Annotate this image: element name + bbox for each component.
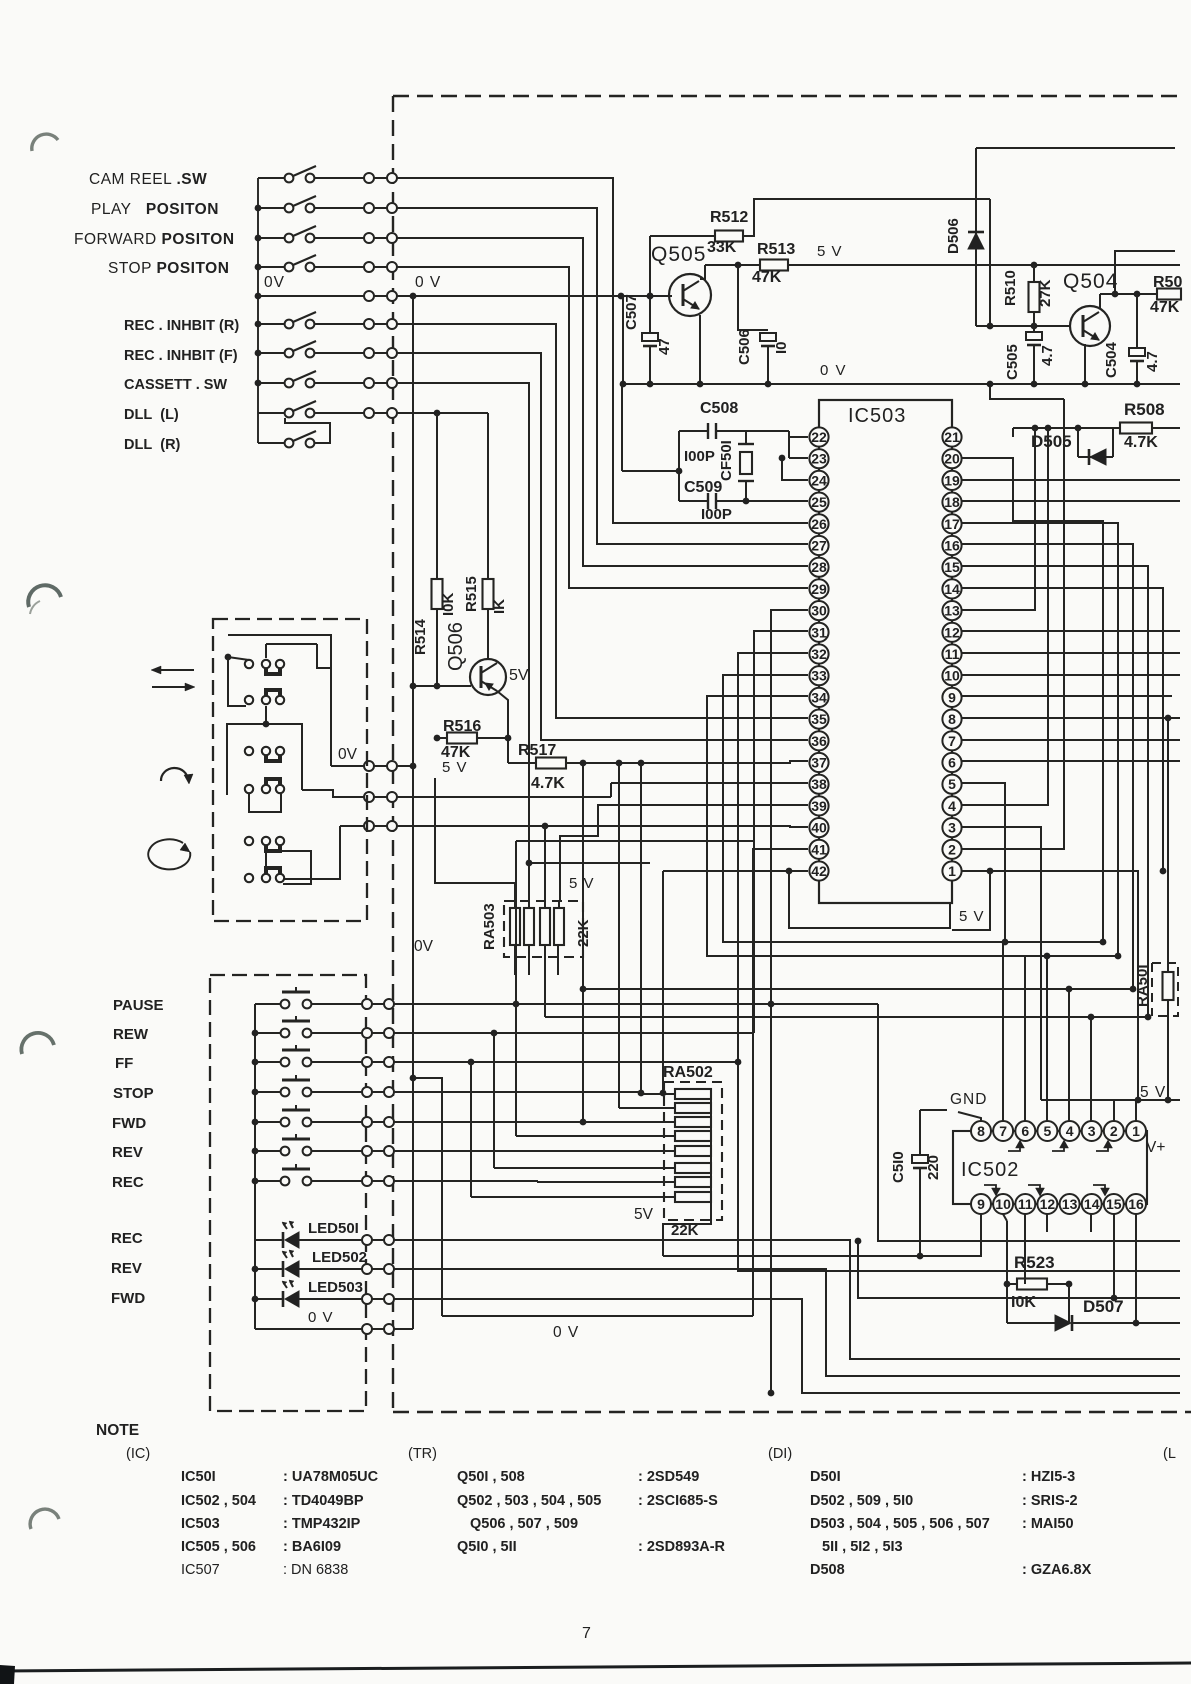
svg-text:5V: 5V [509, 667, 529, 684]
wire row y956 bundle [707, 955, 1118, 957]
svg-text:47: 47 [656, 338, 673, 355]
svg-text:Q504: Q504 [1063, 270, 1118, 293]
wire pin20 staircase [961, 458, 1103, 942]
svg-text:220: 220 [925, 1155, 942, 1180]
svg-text:I0K: I0K [1011, 1294, 1036, 1311]
wire pin16 to vertical [961, 544, 1133, 989]
svg-text:D505: D505 [1031, 432, 1072, 451]
wire row CASSETT SW down to RA503 col2 [397, 383, 529, 901]
svg-text:29: 29 [811, 581, 827, 597]
IC503 pin 1 [942, 861, 961, 880]
wire pin32 to FF row [738, 653, 1180, 1271]
svg-text:: DN 6838: : DN 6838 [283, 1562, 348, 1578]
svg-text:15: 15 [1106, 1196, 1122, 1212]
svg-text:: 2SCI685-S: : 2SCI685-S [638, 1493, 718, 1509]
wire pin21 up to R508 [1012, 428, 1014, 437]
svg-text:FWD: FWD [112, 1115, 146, 1132]
mode switch enclosure dashed box [213, 619, 367, 921]
RA503 resistor 1 [510, 908, 520, 945]
resistor R510 [1033, 265, 1035, 282]
resistor R515 [487, 413, 489, 579]
svg-text:DLL (L): DLL (L) [124, 407, 179, 423]
capacitor C506 [735, 262, 742, 269]
wire feed into CF501 loop [621, 384, 623, 471]
wire 0V vertical drop x=623 [622, 296, 624, 384]
IC503 pin 30 [809, 601, 828, 620]
svg-text:C507: C507 [623, 294, 640, 330]
wire IC502 pin1 to 5V [1135, 1100, 1137, 1121]
wire 0V long vertical [412, 296, 414, 1329]
capacitor C504 [1136, 294, 1138, 348]
IC503 pin 18 [942, 493, 961, 512]
IC503 pin 20 [942, 449, 961, 468]
svg-text:IC50I: IC50I [181, 1469, 216, 1485]
svg-text:5 V: 5 V [959, 908, 985, 925]
svg-text:I00P: I00P [701, 506, 732, 523]
svg-text:10: 10 [944, 668, 960, 684]
mode switch contact group y=878 [245, 874, 253, 882]
IC503 pin 9 [942, 688, 961, 707]
resistor R513 [705, 264, 760, 266]
svg-text:23: 23 [811, 451, 827, 467]
svg-text:15: 15 [944, 559, 960, 575]
IC502 inverter arrows bottom [984, 1185, 996, 1192]
wire REC row to RA502 r7 [394, 1180, 538, 1182]
IC503 pin 7 [942, 731, 961, 750]
RA502 left leads [653, 1093, 675, 1095]
svg-text:C505: C505 [1004, 344, 1021, 380]
wire row DLL L to R514/R515 [397, 412, 488, 414]
wire IC502 pin10 down [1003, 1214, 1007, 1221]
wire REW row to pin31 vertical [394, 1032, 754, 1034]
svg-text:13: 13 [944, 603, 960, 619]
svg-text:D506: D506 [945, 218, 962, 254]
svg-text:IC502 , 504: IC502 , 504 [181, 1493, 256, 1509]
svg-text:IC503: IC503 [181, 1516, 220, 1532]
IC503 pin 31 [809, 623, 828, 642]
wire pin9 long right [961, 695, 1172, 697]
svg-text:V+: V+ [1146, 1139, 1165, 1156]
wire top-right 5V rail [976, 147, 1175, 149]
wire STOP row to RA502 r1 [394, 1091, 641, 1093]
svg-text:0V: 0V [338, 746, 358, 763]
capacitor C508 [679, 430, 708, 432]
resistor R50x [1100, 293, 1157, 295]
svg-text:R513: R513 [757, 241, 795, 258]
svg-text:11: 11 [1018, 1196, 1033, 1212]
RA501 resistor [1167, 718, 1169, 972]
wire Q505 emitter down to 0V row [699, 315, 701, 384]
wire row mode3 to pin40 [340, 825, 364, 827]
svg-text:5 V: 5 V [817, 243, 843, 260]
IC503 pin 19 [942, 471, 961, 490]
wire FWD row to RA502 r3 [394, 1121, 653, 1123]
mode switch contact group y=664 [245, 660, 253, 668]
svg-text:37: 37 [811, 755, 827, 771]
svg-text:24: 24 [811, 472, 827, 488]
buttons left bus [254, 1004, 256, 1329]
wire Q504 emitter to 0V [1084, 344, 1086, 384]
IC502 pin 14 [1082, 1194, 1102, 1214]
wire v1069 to IC502 pin4 [1068, 989, 1070, 1121]
svg-text:3: 3 [1088, 1123, 1096, 1139]
svg-text:FWD: FWD [111, 1290, 145, 1307]
svg-text:D50I: D50I [810, 1469, 841, 1485]
wire pin41 long vertical [753, 849, 808, 1316]
dashed border left vertical [392, 96, 394, 1412]
svg-text:1: 1 [1132, 1123, 1140, 1139]
svg-text:4.7: 4.7 [1144, 351, 1161, 372]
wire row y989 bundle [583, 988, 1133, 990]
svg-text:0 V: 0 V [415, 274, 441, 291]
wire pin15 to vertical [961, 566, 1148, 1017]
IC503 pin 34 [809, 688, 828, 707]
svg-text:LED502: LED502 [312, 1249, 367, 1266]
wire pin1 to 5V net [961, 870, 990, 872]
IC IC502 body [953, 1131, 1147, 1204]
wire row REC INHBIT F to pin36 [397, 353, 808, 740]
wire row 1298 from v858 [858, 1241, 1180, 1298]
IC503 pin 24 [809, 471, 828, 490]
svg-text:R515: R515 [463, 576, 480, 612]
svg-text:36: 36 [811, 733, 827, 749]
RA502 resistor 3 [675, 1117, 711, 1127]
svg-text:FF: FF [115, 1055, 133, 1072]
svg-text:REW: REW [113, 1026, 149, 1043]
IC503 pin 8 [942, 710, 961, 729]
svg-text:6: 6 [948, 755, 956, 771]
svg-text:18: 18 [944, 494, 960, 510]
svg-text:6: 6 [1021, 1123, 1029, 1139]
svg-text:REC . INHBIT (F): REC . INHBIT (F) [124, 348, 238, 364]
RA502 resistor 6 [675, 1163, 711, 1173]
wire R512 to 5V corner [743, 199, 990, 236]
switch contact row y=413 [258, 412, 285, 414]
resistor array RA502 dashed box [664, 1082, 722, 1220]
svg-text:8: 8 [977, 1123, 985, 1139]
svg-text:DLL (R): DLL (R) [124, 437, 181, 453]
wire v471 FF to RA502 r8 [470, 1062, 472, 1197]
wire FF row [394, 1061, 738, 1063]
resistor array RA503 dashed box [504, 901, 583, 957]
wire Q504 base row [976, 325, 1071, 327]
svg-text:I00P: I00P [684, 448, 715, 465]
IC503 pin 10 [942, 666, 961, 685]
wire 0V row to Q505 base [258, 295, 672, 297]
svg-text:17: 17 [944, 516, 960, 532]
LED LED503 [255, 1298, 283, 1300]
wire row mode2 [364, 792, 374, 802]
svg-text:C504: C504 [1103, 341, 1120, 378]
RA503 resistor 4 [554, 908, 564, 945]
wire Q504 collector up [1099, 294, 1101, 309]
dashed border top [393, 95, 1180, 97]
svg-text:PAUSE: PAUSE [113, 997, 164, 1014]
svg-text:32: 32 [811, 646, 827, 662]
svg-text:26: 26 [811, 516, 827, 532]
svg-text:NOTE: NOTE [96, 1422, 139, 1439]
svg-text:C508: C508 [700, 400, 738, 417]
mode switch contact group y=789 [245, 785, 253, 793]
wire pin13 from R508 node [961, 428, 1035, 610]
svg-text:22K: 22K [575, 919, 592, 947]
svg-text:20: 20 [944, 451, 960, 467]
punch hole lower-middle-left [21, 1033, 54, 1054]
IC503 pin 36 [809, 731, 828, 750]
IC503 pin 6 [942, 753, 961, 772]
svg-text:RA50I: RA50I [1134, 964, 1151, 1007]
pushbutton FWD [255, 1121, 281, 1123]
svg-text:IC502: IC502 [961, 1159, 1019, 1181]
wire Q505 collector to R513 node [700, 265, 705, 279]
resistor R512 [715, 231, 743, 242]
resistor R508 [1013, 427, 1120, 429]
IC503 pin 38 [809, 775, 828, 794]
wire LED501 row right [394, 1240, 1180, 1359]
svg-text:: 2SD549: : 2SD549 [638, 1469, 699, 1485]
IC503 pin 13 [942, 601, 961, 620]
mode arrow u-turn [161, 768, 188, 781]
switch contact row y=208 [258, 207, 285, 209]
svg-text:Q506: Q506 [445, 622, 467, 671]
IC502 pin 5 [1037, 1121, 1057, 1141]
wire IC502 pin12 stub [1046, 1214, 1048, 1232]
svg-text:GND: GND [950, 1091, 987, 1108]
IC502 pin 12 [1037, 1194, 1057, 1214]
svg-text:C509: C509 [684, 479, 722, 496]
svg-text:13: 13 [1062, 1196, 1078, 1212]
switch contact row y=324 [258, 323, 285, 325]
wire jog x=990 [989, 199, 991, 326]
svg-text:R50: R50 [1153, 274, 1182, 291]
svg-text:38: 38 [811, 776, 827, 792]
wire v611 to pin38 row [610, 783, 612, 797]
svg-text:REC . INHBIT (R): REC . INHBIT (R) [124, 318, 239, 334]
mode switch internal wires [225, 654, 232, 661]
wire pin42 row to left [663, 870, 789, 872]
svg-text:42: 42 [811, 863, 827, 879]
svg-text:FORWARD POSITON: FORWARD POSITON [74, 231, 235, 248]
svg-text:47K: 47K [752, 269, 782, 286]
diode D505 [1077, 428, 1079, 457]
IC503 pin 14 [942, 579, 961, 598]
svg-text:PLAY POSITON: PLAY POSITON [91, 201, 219, 218]
svg-text:9: 9 [977, 1196, 985, 1212]
svg-text:1: 1 [948, 863, 956, 879]
svg-text:16: 16 [944, 538, 960, 554]
switch contact row y=353 [258, 352, 285, 354]
pushbutton REV [255, 1150, 281, 1152]
svg-text:: SRIS-2: : SRIS-2 [1022, 1493, 1078, 1509]
svg-text:5: 5 [948, 776, 956, 792]
wire row STOP to pin29 cascade [397, 267, 808, 588]
wire row 0V from mode switch [331, 765, 364, 767]
wire pin37 down to RA502 row1 [640, 763, 642, 1093]
svg-text:REV: REV [112, 1144, 143, 1161]
wire pin34 to IC502 pin6 [707, 696, 1025, 1121]
IC503 pin 42 [809, 861, 828, 880]
wire R517 row to IC503 pin37 [566, 761, 808, 763]
wire stub row 1078 and v442 [410, 1075, 417, 1082]
svg-text:Q505: Q505 [651, 243, 706, 266]
svg-text:D502 , 509 , 5I0: D502 , 509 , 5I0 [810, 1493, 913, 1509]
buttons enclosure dashed box [210, 975, 366, 1411]
diode D507 [1007, 1322, 1055, 1324]
IC503 pin 22 [809, 427, 828, 446]
wire PAUSE row to pin30 vertical [394, 1003, 878, 1005]
svg-text:Q5I0 , 5II: Q5I0 , 5II [457, 1539, 517, 1555]
IC503 pin 29 [809, 579, 828, 598]
wire row 841 [516, 840, 753, 842]
svg-text:2: 2 [1110, 1123, 1118, 1139]
svg-text:: MAI50: : MAI50 [1022, 1516, 1074, 1532]
mode switch inner frame [227, 724, 302, 795]
mode arrow double horizontal [155, 669, 194, 671]
svg-text:IK: IK [491, 599, 508, 614]
svg-text:11: 11 [945, 646, 960, 662]
switch contact row y=178 [258, 177, 285, 179]
svg-text:19: 19 [944, 472, 960, 488]
svg-text:CAM REEL .SW: CAM REEL .SW [89, 171, 207, 188]
wire IC502 pin16 down [1135, 1214, 1137, 1323]
wire row y1017 bundle [545, 1016, 1148, 1018]
capacitor C509 [679, 500, 708, 502]
wire R523 right node down [1068, 1213, 1070, 1215]
wire pin10 long right [961, 674, 1180, 676]
svg-text:D507: D507 [1083, 1297, 1124, 1316]
svg-text:14: 14 [1084, 1196, 1100, 1212]
pushbutton REC [255, 1180, 281, 1182]
svg-text:27: 27 [811, 538, 827, 554]
svg-text:RA503: RA503 [481, 903, 498, 950]
svg-text:R508: R508 [1124, 400, 1165, 419]
IC502 pin 1 [1126, 1121, 1146, 1141]
svg-text:C5I0: C5I0 [890, 1151, 907, 1183]
wire pin11 long right [961, 652, 1180, 654]
punch hole upper-middle-left [28, 585, 61, 607]
svg-text:(L: (L [1163, 1446, 1176, 1462]
svg-text:4.7: 4.7 [1039, 345, 1056, 366]
svg-text:REC: REC [112, 1174, 144, 1191]
wire v878 down to row 1241 [878, 1004, 1180, 1241]
wire pin33 to IC502 pin7 [723, 675, 1003, 1121]
wire row 1316 [442, 1315, 753, 1317]
svg-text:27K: 27K [1037, 279, 1054, 307]
IC503 pin 37 [809, 753, 828, 772]
svg-text:: UA78M05UC: : UA78M05UC [283, 1469, 379, 1485]
resistor R516 [437, 737, 447, 739]
svg-text:R512: R512 [710, 209, 748, 226]
svg-text:3: 3 [948, 820, 956, 836]
svg-text:7: 7 [999, 1123, 1007, 1139]
svg-text:: BA6I09: : BA6I09 [283, 1539, 341, 1555]
RA502 resistor 7 [675, 1177, 711, 1187]
RA502 resistor 5 [675, 1146, 711, 1156]
wire v516 PAUSE to RA502 r4 [515, 841, 517, 1136]
wire row FORWARD to pin28 cascade [397, 238, 808, 566]
IC502 pin 10 [993, 1194, 1013, 1214]
IC502 pin 3 [1082, 1121, 1102, 1141]
svg-text:Q502 , 503 , 504 , 505: Q502 , 503 , 504 , 505 [457, 1493, 601, 1509]
diode D506 [975, 148, 977, 326]
switch contact row DLL R [258, 442, 285, 444]
wire long vertical x583 [582, 763, 584, 1122]
svg-text:4.7K: 4.7K [531, 775, 565, 792]
IC503 pin 16 [942, 536, 961, 555]
IC503 pin 33 [809, 666, 828, 685]
wire 0V row under Q505 [623, 383, 1180, 385]
IC503 pin 40 [809, 818, 828, 837]
punch hole bottom-left [30, 1509, 59, 1529]
capacitor C507 [649, 296, 651, 333]
IC502 pin 8 [971, 1121, 991, 1141]
LED bus left [254, 1240, 256, 1329]
wire LED502 row right [394, 1269, 1180, 1376]
LED LED502 [255, 1268, 283, 1270]
svg-text:40: 40 [811, 820, 827, 836]
svg-text:D503 , 504 , 505 , 506 , 507: D503 , 504 , 505 , 506 , 507 [810, 1516, 990, 1532]
svg-text:5V: 5V [634, 1206, 654, 1223]
wire row 863 [529, 862, 650, 864]
wire pin12 long right [961, 630, 1180, 632]
wire 5V row above IC502 [1041, 1099, 1180, 1101]
IC502 inverter arrows top [1008, 1144, 1020, 1151]
switch contact row y=383 [258, 382, 285, 384]
IC503 pin 15 [942, 558, 961, 577]
IC IC503 body [819, 400, 952, 903]
svg-text:4: 4 [948, 798, 956, 814]
svg-text:35: 35 [811, 711, 827, 727]
wire pin18 long right [961, 500, 1180, 502]
svg-text:R516: R516 [443, 718, 481, 735]
svg-text:14: 14 [944, 581, 960, 597]
svg-text:33: 33 [811, 668, 827, 684]
RA502 resistor 2 [675, 1103, 711, 1113]
wire pin7 long right [961, 739, 1180, 741]
svg-text:Q50I , 508: Q50I , 508 [457, 1469, 525, 1485]
wire LED503 row right [394, 1299, 1180, 1393]
IC502 pin 7 [993, 1121, 1013, 1141]
transistor Q505 [669, 274, 711, 316]
svg-text:I0: I0 [773, 341, 790, 354]
svg-text:C506: C506 [736, 329, 753, 365]
wire IC502 pin15 down [1113, 1214, 1115, 1298]
svg-text:R523: R523 [1014, 1253, 1055, 1272]
mode switch contact group y=841 [245, 837, 253, 845]
wire pin17 to vertical [961, 523, 1118, 956]
ceramic filter CF501 [745, 431, 747, 444]
IC502 pin 9 [971, 1194, 991, 1214]
wire IC502 pin9 down [980, 1214, 982, 1256]
wire pin39 to RA503 col4 [560, 805, 808, 901]
wire R512 feed vertical x650 [649, 236, 651, 296]
svg-text:STOP POSITON: STOP POSITON [108, 260, 229, 277]
left bus wire of mode switches [257, 178, 259, 443]
svg-text:CF50I: CF50I [718, 440, 735, 481]
resistor array RA501 dashed box [1152, 963, 1178, 1016]
svg-text:LED50I: LED50I [308, 1220, 359, 1237]
svg-text:9: 9 [948, 689, 956, 705]
svg-text:33K: 33K [707, 239, 737, 256]
svg-text:5II , 5I2 , 5I3: 5II , 5I2 , 5I3 [822, 1539, 903, 1555]
IC503 pin 25 [809, 493, 828, 512]
svg-text:12: 12 [1040, 1196, 1056, 1212]
mode switch contact group y=700 [245, 696, 253, 704]
svg-text:25: 25 [811, 494, 827, 510]
svg-text:IC503: IC503 [848, 405, 906, 427]
wire pin42 junction and 5V loop [789, 870, 808, 872]
svg-text:: HZI5-3: : HZI5-3 [1022, 1469, 1075, 1485]
